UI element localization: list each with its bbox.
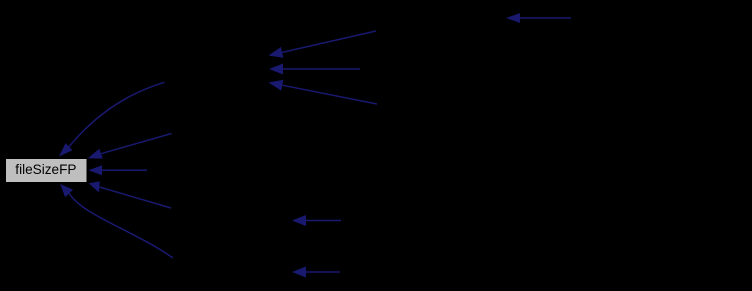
edge: mid-right horizontal arrow into hidden node xyxy=(306,220,341,222)
edge: curve into node top-left (from hidden caller A) xyxy=(69,82,165,146)
edge: line into node bottom-right (from hidden caller D) xyxy=(99,187,171,208)
arrowhead bottom-right horizontal xyxy=(292,267,306,278)
edge: horizontal line into node right edge (from hidden caller C) xyxy=(102,169,147,171)
arrowhead horizontal at hidden caller A xyxy=(269,64,283,75)
arrowhead of line into node bottom-right xyxy=(89,181,100,192)
arrowhead top-right horizontal xyxy=(506,13,520,23)
arrowhead of horizontal line into node right edge xyxy=(89,165,103,175)
edge: long curve into node bottom-left (from hidden caller E) xyxy=(69,193,173,258)
arrowhead mid-right horizontal xyxy=(292,215,306,226)
edge: upper diagonal into hidden caller A right edge xyxy=(282,31,376,52)
arrowhead lower diagonal at hidden caller A xyxy=(269,80,284,91)
arrowhead of curve into node top-left xyxy=(59,143,73,156)
edge: lower diagonal into hidden caller A right edge xyxy=(282,85,377,104)
svg-text:fileSizeFP: fileSizeFP xyxy=(15,162,76,177)
arrowhead of long curve into node bottom-left xyxy=(60,184,73,197)
edge: line into node top-right (from hidden caller B) xyxy=(101,134,172,154)
edge: top-right horizontal arrow into hidden node xyxy=(520,17,571,19)
node fileSizeFP (current function, grey filled box) xyxy=(6,159,88,183)
arrowhead of line into node top-right xyxy=(88,149,103,159)
edge: horizontal into hidden caller A right edge xyxy=(283,68,360,70)
edge: bottom-right horizontal arrow into hidden node xyxy=(306,271,340,273)
arrowhead upper diagonal at hidden caller A xyxy=(269,47,284,58)
